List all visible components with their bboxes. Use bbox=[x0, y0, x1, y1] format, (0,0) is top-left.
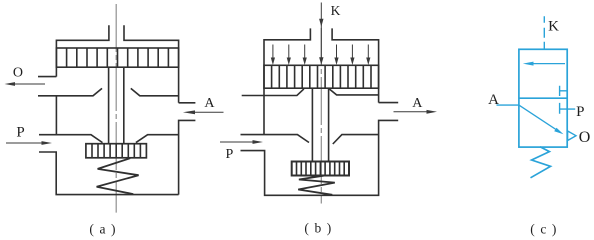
upper seat left (b) bbox=[242, 89, 304, 96]
stem (a) bbox=[109, 67, 124, 144]
figure (a) valve cross-section bbox=[5, 4, 224, 237]
left wall middle (a) bbox=[55, 96, 57, 135]
figure (c) graphic symbol bbox=[488, 16, 590, 236]
svg-text:( a ): ( a ) bbox=[89, 222, 116, 237]
lower seat right (b) bbox=[333, 135, 379, 144]
svg-text:P: P bbox=[576, 104, 584, 120]
upper seat right (a) bbox=[131, 88, 179, 95]
valve body box (c) bbox=[519, 49, 567, 147]
pilot port (b) right wall, body top-right, right wall upper (b) bbox=[332, 28, 379, 102]
svg-text:K: K bbox=[331, 3, 341, 18]
blocked port T top square (c) bbox=[560, 86, 568, 96]
stem (b) bbox=[312, 88, 328, 161]
svg-text:P: P bbox=[16, 124, 24, 140]
svg-text:( c ): ( c ) bbox=[530, 222, 557, 237]
flow diagonal arrow A to O (c) bbox=[519, 105, 564, 134]
spring (b) compressed bbox=[298, 176, 335, 195]
piston (b) hatched, seated bbox=[264, 65, 379, 88]
svg-text:O: O bbox=[13, 66, 23, 81]
upper seat left (a) bbox=[38, 88, 102, 95]
svg-text:A: A bbox=[412, 96, 423, 111]
exhaust triangle O (c) bbox=[568, 131, 576, 141]
upper seat right (b) bbox=[329, 89, 378, 95]
blocked port T bottom square with P stub (c) bbox=[560, 103, 576, 114]
A port walls (b), right wall lower, bottom wall, P channel lower (b) bbox=[241, 103, 399, 196]
flow arrow top square (c) bbox=[523, 62, 565, 66]
A flow arrow (a) bbox=[183, 110, 224, 114]
figure (b) valve cross-section actuated bbox=[220, 3, 437, 236]
A port line (c) bbox=[497, 104, 519, 106]
P channel lower wall, left wall lower, bottom wall (a) bbox=[39, 152, 179, 195]
svg-text:K: K bbox=[548, 18, 559, 34]
pilot port (a) right wall and body top-right and right wall bbox=[124, 25, 179, 103]
O channel upper wall (a) bbox=[38, 76, 56, 78]
P flow arrow (a) bbox=[6, 141, 52, 145]
P channel upper wall and lower seat left (b) bbox=[241, 135, 310, 143]
poppet disc (a) hatched bbox=[86, 144, 146, 158]
svg-text:( b ): ( b ) bbox=[304, 221, 332, 236]
A flow arrow (b) bbox=[394, 110, 438, 114]
pilot port (a) left wall and body top-left and upper-left wall bbox=[56, 25, 109, 76]
centerline (a) bbox=[115, 4, 117, 213]
lower seat right (a) bbox=[136, 135, 179, 143]
spring (a) bbox=[97, 158, 139, 194]
poppet disc (b) hatched bbox=[292, 162, 349, 176]
K pilot arrow (b) bbox=[319, 3, 323, 65]
centerline (b) bbox=[320, 28, 322, 204]
spring (c) bbox=[531, 147, 551, 178]
P flow arrow (b) bbox=[220, 140, 263, 144]
O flow arrow (a) bbox=[5, 82, 46, 86]
svg-text:O: O bbox=[579, 129, 591, 146]
P channel upper wall and lower seat left (a) bbox=[39, 135, 103, 143]
svg-text:A: A bbox=[204, 96, 215, 111]
svg-text:A: A bbox=[488, 92, 499, 108]
pilot line K dashed (c) bbox=[543, 16, 545, 49]
pressure arrows (b) bbox=[271, 45, 371, 66]
svg-text:P: P bbox=[226, 147, 234, 162]
pilot port (b) left wall, body top-left, left wall (b) bbox=[264, 28, 310, 134]
position divider (c) bbox=[519, 97, 567, 99]
piston (a) hatched bbox=[56, 48, 178, 67]
A port walls (a) bbox=[179, 103, 196, 195]
